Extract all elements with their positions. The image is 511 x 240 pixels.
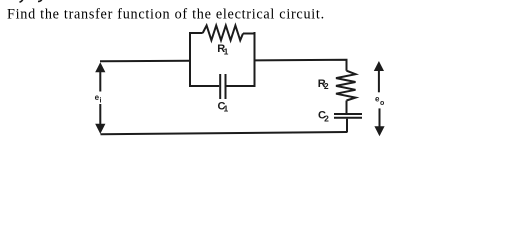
svg-text:o: o [380, 100, 384, 107]
svg-text:1: 1 [224, 104, 229, 114]
svg-text:i: i [100, 98, 102, 105]
svg-text:2: 2 [324, 81, 329, 91]
svg-text:2: 2 [324, 113, 329, 123]
svg-text:Find the transfer function of: Find the transfer function of the electr… [7, 7, 325, 23]
svg-text:1: 1 [224, 46, 229, 56]
